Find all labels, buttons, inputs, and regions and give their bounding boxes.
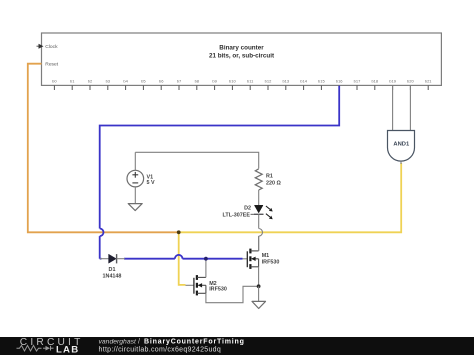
svg-text:b17: b17 [354, 79, 361, 84]
svg-text:b12: b12 [265, 79, 272, 84]
svg-text:b7: b7 [177, 79, 182, 84]
junction node: yellow/orange T [177, 230, 181, 234]
binary counter sub-circuit box U1 [42, 33, 442, 85]
pin b5 [141, 79, 146, 91]
footer url text [99, 347, 222, 354]
pin b17 [354, 79, 361, 91]
MOSFET M2 IRF530 [194, 275, 227, 295]
pin b0 [52, 79, 57, 91]
svg-text:b8: b8 [195, 79, 200, 84]
svg-text:5 V: 5 V [147, 180, 155, 186]
svg-text:b9: b9 [212, 79, 217, 84]
pin Clock [37, 44, 59, 50]
svg-text:BinaryCounterForTiming: BinaryCounterForTiming [144, 338, 245, 345]
wire M2 source to ground node [206, 286, 259, 302]
ground (V1) [128, 204, 142, 211]
svg-text:b0: b0 [52, 79, 57, 84]
svg-text:R1: R1 [266, 174, 273, 180]
pin b10 [229, 79, 236, 91]
svg-text:1N4148: 1N4148 [103, 274, 122, 280]
svg-text:b1: b1 [70, 79, 75, 84]
pin b1 [70, 79, 75, 91]
LED D2 LTL-307EE [223, 205, 273, 219]
pin b16 [336, 79, 343, 91]
footer bar [0, 337, 474, 355]
svg-text:vanderghast: vanderghast [99, 338, 138, 345]
svg-text:http://circuitlab.com/cx6eq924: http://circuitlab.com/cx6eq92425udq [99, 347, 222, 354]
junction node: M2 drain to blue wire [204, 257, 208, 261]
wire yellow net: branch down to M2 gate [179, 232, 186, 285]
wire M1 drain up / source down [258, 236, 260, 286]
svg-text:b6: b6 [159, 79, 164, 84]
pin b2 [88, 79, 93, 91]
ground (M1/M2 sources) [252, 286, 266, 308]
voltage source V1 5V [127, 152, 155, 203]
svg-text:b15: b15 [318, 79, 325, 84]
wire M2 gate lead [186, 284, 194, 286]
wire LED cathode down to hop [258, 214, 260, 228]
resistor R1 220 ohm [255, 169, 281, 206]
pin b9 [212, 79, 217, 91]
pin Reset [45, 62, 58, 68]
pin b4 [123, 79, 128, 91]
svg-text:Clock: Clock [45, 44, 58, 50]
wire yellow net: junction to AND1 output [179, 163, 402, 232]
svg-text:b21: b21 [425, 79, 432, 84]
pin b14 [300, 79, 307, 91]
pin b18 [371, 79, 378, 91]
svg-text:Binary counter: Binary counter [219, 44, 264, 51]
svg-text:AND1: AND1 [393, 141, 410, 147]
junction node: M1 source / M2 source / ground [257, 284, 261, 288]
svg-text:21 bits, or, sub-circuit: 21 bits, or, sub-circuit [209, 53, 275, 60]
pin b15 [318, 79, 325, 91]
svg-text:220 Ω: 220 Ω [266, 181, 281, 187]
wire M2 drain up to blue node [205, 259, 207, 278]
diode D1 1N4148 [100, 254, 125, 279]
pin b8 [195, 79, 200, 91]
CircuitLab logo [17, 337, 84, 355]
wire blue net: down to D1 anode [100, 236, 102, 259]
pin b12 [265, 79, 272, 91]
wire hop: blue over yellow at (178.7,258.7) [175, 255, 183, 259]
wire blue net: from pin b16 down and across [100, 86, 340, 229]
svg-text:Reset: Reset [45, 62, 58, 68]
pin b7 [177, 79, 182, 91]
svg-text:IRF530: IRF530 [209, 287, 227, 293]
pin b6 [159, 79, 164, 91]
svg-text:b3: b3 [106, 79, 111, 84]
pin b20 [407, 79, 414, 91]
svg-text:b5: b5 [141, 79, 146, 84]
svg-text:IRF530: IRF530 [262, 259, 280, 265]
svg-text:b2: b2 [88, 79, 93, 84]
svg-text:D1: D1 [109, 267, 116, 273]
wire LED to M1 drain [258, 236, 260, 251]
svg-text:b10: b10 [229, 79, 236, 84]
wire hop: gray over yellow at (258.7,232.3) [259, 229, 263, 237]
svg-text:b19: b19 [389, 79, 396, 84]
svg-text:LAB: LAB [56, 345, 79, 355]
svg-text:b20: b20 [407, 79, 414, 84]
svg-text:D2: D2 [244, 206, 251, 212]
svg-text:M1: M1 [262, 253, 270, 259]
AND gate AND1 [388, 131, 415, 165]
footer title text [99, 338, 245, 345]
svg-text:b14: b14 [300, 79, 307, 84]
wire b19 to AND1 input 1 [392, 85, 394, 130]
pin b3 [106, 79, 111, 91]
pin b11 [247, 79, 254, 91]
svg-text:LTL-307EE: LTL-307EE [223, 213, 251, 219]
svg-text:b11: b11 [247, 79, 254, 84]
wire V1 to R1 top [135, 152, 258, 168]
svg-text:b13: b13 [282, 79, 289, 84]
pin b19 [389, 79, 396, 91]
svg-text:b18: b18 [371, 79, 378, 84]
svg-text:b4: b4 [123, 79, 128, 84]
svg-text:/: / [138, 338, 140, 345]
svg-text:b16: b16 [336, 79, 343, 84]
wire blue net: hop to M1 gate [183, 258, 243, 260]
pin b13 [282, 79, 289, 91]
wire blue net: D1 cathode to hop [124, 258, 175, 260]
pin b21 [425, 79, 432, 91]
wire Reset net (orange) [28, 64, 178, 233]
MOSFET M1 IRF530 [243, 249, 280, 269]
wire hop: blue over orange at (99.7,232.3) [100, 229, 104, 237]
wire b20 to AND1 input 2 [409, 85, 411, 130]
